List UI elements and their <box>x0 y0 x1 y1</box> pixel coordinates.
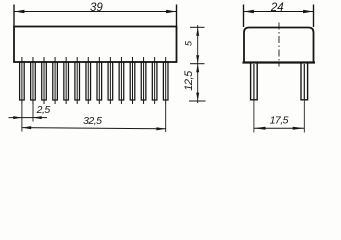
svg-text:24: 24 <box>270 2 284 14</box>
svg-text:2,5: 2,5 <box>36 104 51 116</box>
svg-text:39: 39 <box>90 2 103 14</box>
svg-text:32,5: 32,5 <box>83 115 102 127</box>
svg-text:12,5: 12,5 <box>183 70 195 91</box>
svg-text:17,5: 17,5 <box>270 115 289 127</box>
